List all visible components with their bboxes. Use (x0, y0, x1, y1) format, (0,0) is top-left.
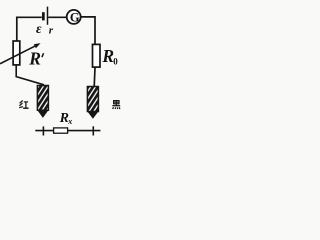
battery cell: positive plate (long thin) (47, 7, 49, 25)
black probe (hatched handle) (87, 87, 98, 112)
battery cell: negative plate (short thick) (42, 12, 45, 20)
label red (hong) hand-drawn glyph (19, 101, 28, 109)
svg-text:x: x (67, 117, 72, 126)
left terminal tick (42, 126, 44, 135)
svg-text:R: R (101, 46, 114, 66)
galvanometer G (67, 10, 81, 24)
resistor R0 (93, 44, 101, 67)
svg-text:G: G (70, 10, 80, 24)
wire battery to galvanometer (48, 16, 67, 18)
wire rheostat to red probe (stub + diagonal) (16, 66, 44, 85)
svg-text:R: R (28, 49, 41, 69)
svg-text:ε: ε (36, 21, 42, 36)
red probe (hatched handle) (37, 86, 48, 111)
black probe tip (87, 112, 98, 119)
wire galvanometer to right rail corner (81, 17, 95, 44)
red probe tip (37, 110, 48, 118)
right terminal tick (92, 126, 94, 135)
bottom lead wire of Rx (35, 130, 100, 132)
svg-text:0: 0 (113, 57, 118, 67)
rheostat R' box (13, 41, 20, 65)
rheostat arrow (0, 45, 37, 64)
wire R0 to black probe (93, 68, 96, 88)
label black (hei) hand-drawn glyph (112, 100, 120, 109)
resistor Rx box (54, 128, 68, 133)
wire top-left corner (left rail to battery) (17, 17, 42, 40)
svg-text:r: r (49, 25, 54, 37)
